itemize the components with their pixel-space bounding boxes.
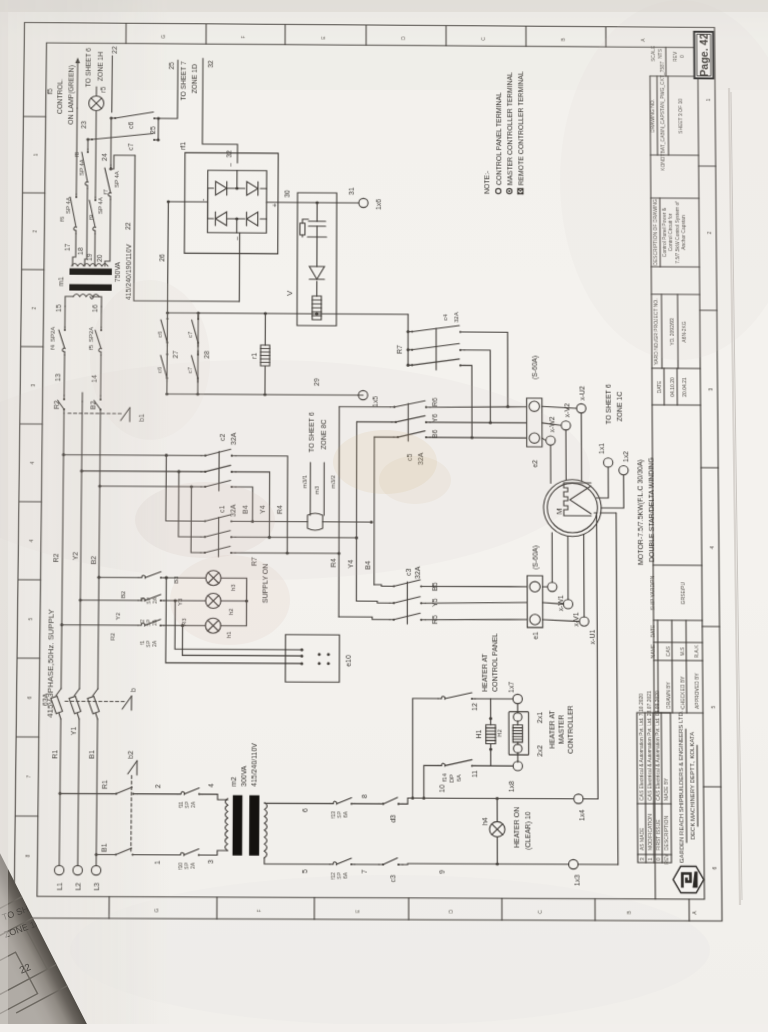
dc bus vertical [167,313,408,315]
contactor c2 32A [201,455,205,457]
wire e10 row2 from R [182,625,285,655]
linkage b1 [129,408,131,422]
wire c5 Y6 to xV2 [430,421,527,424]
wire 22 to frame edge [111,56,114,113]
contact d3 upper [379,803,383,805]
wire cross link c1 B [178,472,201,537]
wire xV1 to motor [567,536,569,600]
contact d3 lower [379,863,383,865]
arrow to sheet 6 zone 1h [76,62,78,108]
contact c6 top [111,117,115,119]
wire B2 bus [98,413,101,688]
wire R7 mid down [464,350,490,423]
CT box e1 (S-60A) [527,576,543,628]
wire 20 [105,199,111,266]
terminal 1x3 [569,860,578,869]
fuse f7 SP 4A [109,196,111,199]
wire c3 Y5 to e1 [425,602,527,604]
wire drop f2 Y [80,599,138,601]
contactor c1 32A [201,520,205,522]
wire Y2 cont [81,393,83,402]
wire drop to c2 pole C [100,485,201,488]
wire drop to c2 pole A [64,454,202,457]
linkage bar c2 [218,451,220,490]
wire 15 [64,306,66,327]
wire Y2 bus [79,401,82,688]
isolator b2 [136,761,138,775]
lamp h4 heater on [496,837,498,864]
wire xW2 to motor [550,445,552,483]
terminal 1x1 [604,458,613,467]
contactor c5 32A [390,406,394,408]
wire e10 row1 from Y [175,601,286,650]
wire 12 down [475,698,513,700]
contact c7 rung [197,378,199,382]
fuse f9 SP 4A [94,231,96,234]
wire c5 B6 to e2 [430,436,527,439]
terminal 1x6 wire 31 [359,198,368,207]
wire link 25 [157,118,159,139]
title block revision table [637,713,672,863]
page number box [694,32,713,79]
contact c7 rung b [197,343,199,347]
wire 5 [264,858,330,864]
fuse f3 SP 2A [139,577,142,579]
motor M [543,479,601,536]
wire drop f3 B [99,576,139,578]
wire m3/1 [309,462,311,515]
contact B2 [99,409,101,413]
fuse f14b DP 6A [438,765,441,767]
wire R7 low down [464,365,472,437]
wire B1 [96,719,97,866]
fuse f4 SP 2A [64,352,66,355]
wire 7 [354,863,379,865]
wire 4 [202,794,228,800]
fuse f2 SP 2A [138,599,141,601]
wire 9 heater return [616,513,618,865]
wire 22 rail [134,155,240,301]
wire m3/2 [323,463,325,516]
GRSE logo [673,866,704,893]
terminal L1 [54,865,64,874]
fuse f11 SP 2A [178,793,181,795]
terminal 1x4 [574,794,583,803]
wire 24 jog [111,155,135,169]
wire 1x1 to motor [596,467,608,498]
drawing inner border frame [37,43,704,899]
wire 6 [265,802,330,804]
wire 19 [94,234,96,266]
wire 17 [73,233,76,265]
grid reference band ticks top edge [15,815,38,817]
wire xU1 to motor [583,533,585,617]
transformer m1 [73,294,99,299]
contact B1 [112,854,116,856]
wire 29 rail [167,394,359,395]
rail R4 [338,407,341,617]
wire dc rung 28 [197,313,200,394]
CT box e2 (S-60A) [527,398,542,447]
wire 1 [137,854,177,856]
heater H1 [490,744,492,766]
title block outline [650,76,655,899]
bridge rectifier rf1 box 26 [184,153,278,254]
wire 16 [100,307,102,328]
wire c2C c1A merge U [235,487,252,522]
wire 32 [202,58,238,163]
linkage bar c3 [406,582,408,624]
wire cross link c1 C [191,487,201,553]
wire drop f1 R [62,624,138,626]
wire e1 to xV1 [543,603,564,605]
wire xU2 to motor [580,413,582,484]
grid reference band ticks bottom edge [704,786,721,788]
rail R4 left leg [339,617,390,620]
terminal x-W1 [548,582,557,591]
contact c6 rung b [166,343,168,347]
linkage dashed b2 [130,773,133,851]
thermistor m3 [306,521,308,523]
wire 11 down [475,765,513,767]
wire dc rung top [166,313,169,394]
wire 2 [137,793,177,795]
fuse f10 SP 2A [177,854,180,856]
fuse 63A three pole [59,713,61,719]
lamp h3 [206,570,221,585]
terminal x-W2 [546,436,555,445]
transformer m2 [225,799,228,851]
wire e10 row3 from B [166,578,286,664]
wire c5 R6 to e2 [430,406,527,408]
wire xW1 to motor [551,533,553,583]
fuse f12 SP 6A [330,863,333,865]
wire cross link c1 A [166,455,202,521]
wire B3 [164,577,206,579]
wire c3 R5 to e1 [425,619,527,620]
rail Y4 left leg [356,601,389,603]
rail B4 left leg [374,585,390,587]
linkage bar c5 [407,403,409,441]
grid reference band ticks right edge [125,23,127,43]
wire 9 vertical [403,864,569,866]
terminal 1x5 [358,391,367,400]
wire 3 [202,850,228,855]
wire 1x2 to motor [601,475,624,508]
wire to lamp r5 [95,87,97,96]
rail Y4 [355,422,357,601]
linkage bar R7 [435,328,437,370]
wire 10 vertical [403,798,575,805]
wire rail y89 [87,139,89,149]
terminal 1x2 [619,466,628,475]
wire drop to c2 pole B [82,470,202,473]
contact c6 rung [166,378,168,382]
wire rail y112 [110,118,112,165]
terminal L3 [91,866,101,875]
wire 10 heater feed [597,513,598,799]
wire 25 up [158,60,177,119]
wire R1 [59,719,61,866]
terminal x-V2 [561,421,570,430]
fuse f8 SP 4A [86,185,88,188]
wire bridge ac left [238,233,240,302]
wire c2A c1C merge W [235,456,287,553]
resistor r1 [264,366,266,395]
linkage bar c1 [218,517,220,556]
wire bridge dc plus 30 [267,201,359,204]
lamp r5 control on lamp [89,96,104,111]
wire f14 feed b [424,766,439,799]
contact R1 [112,793,116,795]
wire R2 bus [61,413,64,688]
terminal x-U2 [577,404,586,413]
wire e2 to xU2 [542,406,577,408]
wire Y3 [164,600,206,602]
wire rail y97 [94,111,97,197]
contact c7 top [88,138,92,140]
wire xV2 to motor [565,430,567,480]
wire 18 [85,188,88,266]
wire tap B1 branch [96,854,111,856]
fuse f1 SP 2A [138,624,141,626]
terminal 1x8 [513,761,522,770]
wire 13 [63,355,65,396]
terminal x-U1 [579,617,588,626]
terminal 1x7 [513,694,522,703]
contact R2 [63,409,65,413]
fuse f14a DP 6A [438,698,441,700]
wire e2 to xW2 [542,438,546,440]
rail B4 [373,437,375,585]
wire tap R1 branch [60,792,112,794]
fuse f6 SP 4A [75,231,77,234]
wire 1x5 to rail [358,394,363,396]
lamp h2 [206,593,221,608]
wire bridge dc minus [167,202,207,313]
wire c2B c1B merge V [235,472,269,537]
wire e2 to xV2 [542,423,561,425]
fuse f13 SP 6A [330,803,333,805]
wire heater stub [594,512,596,514]
wire R7 to e2 row [464,332,507,407]
contactor R7 [407,332,409,366]
lamp h1 [205,618,220,633]
wire Y1 [78,719,79,866]
grid reference band ticks left edge [108,897,110,919]
wire R3 [164,624,206,626]
terminal L2 [73,866,83,875]
heater H2 master controller [509,712,529,755]
wire c3 B5 to e1 [425,585,527,588]
suppressor box V [297,193,337,326]
wire rail y78 [75,108,78,194]
fuse f5 SP 2A [100,352,102,355]
wire 14 [100,355,102,396]
wire f14 feed a [413,698,439,798]
contactor c3 32A [390,619,394,621]
isolator handle b [130,696,132,710]
lamp return bus [221,578,247,626]
wire e1 to xU1 [543,620,580,622]
wire e1 to xW1 [543,586,548,588]
terminal x-V1 [563,599,572,608]
wire 8 [355,803,380,805]
terminal block e10 [285,635,339,683]
